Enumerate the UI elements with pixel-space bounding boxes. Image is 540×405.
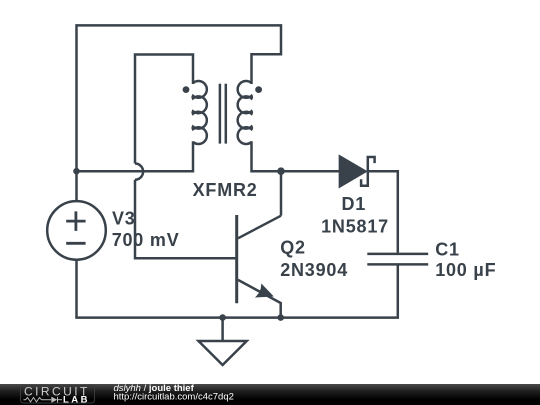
svg-text:http://circuitlab.com/c4c7dq2: http://circuitlab.com/c4c7dq2 [114,392,234,403]
capacitor C1 [367,254,428,265]
wire secondary bottom to D1 anode [252,141,340,171]
svg-text:100 µF: 100 µF [435,260,496,280]
wire collector up to node B [280,171,283,216]
svg-text:Q2: Q2 [280,238,306,258]
transformer core [220,84,226,144]
phase dot secondary [255,86,262,93]
footer bar [0,384,540,405]
node ground junction dot [219,314,226,321]
logo resistor zigzag and diode [24,397,63,403]
wire ground stem [221,318,224,341]
wire XFMR primary top lead [135,55,193,164]
svg-text:D1: D1 [342,194,367,214]
diode D1 triangle [339,156,366,188]
transformer XFMR2 secondary winding [238,81,252,144]
logo diode triangle [51,397,57,403]
diode D1 schottky cathode bar [361,157,375,186]
transistor Q2 [237,215,281,318]
voltage source V3 [47,201,106,260]
wire hop over node wire [135,164,143,180]
node A junction dot [73,168,80,175]
transformer XFMR2 primary winding [193,81,207,144]
wire top rail from V3+ to XFMR secondary [77,25,282,201]
logo badge box [21,386,95,404]
node B junction dot [277,167,285,175]
ground symbol [199,341,247,365]
svg-text:700 mV: 700 mV [112,230,180,250]
transistor Q2 emitter arrow [257,285,272,296]
svg-text:V3: V3 [112,209,136,229]
node emitter-ground rail junction dot [277,314,284,321]
wire C1 bottom and ground rail [77,259,398,317]
svg-text:XFMR2: XFMR2 [193,180,258,200]
svg-text:LAB: LAB [63,395,90,405]
wire D1 cathode to C1 top [368,171,398,253]
phase dot primary [183,86,190,93]
svg-text:1N5817: 1N5817 [321,216,389,236]
svg-text:C1: C1 [435,239,460,259]
wire node A to primary winding bottom [77,141,194,171]
svg-text:2N3904: 2N3904 [280,260,348,280]
wire primary bottom to Q2 base [135,180,236,259]
